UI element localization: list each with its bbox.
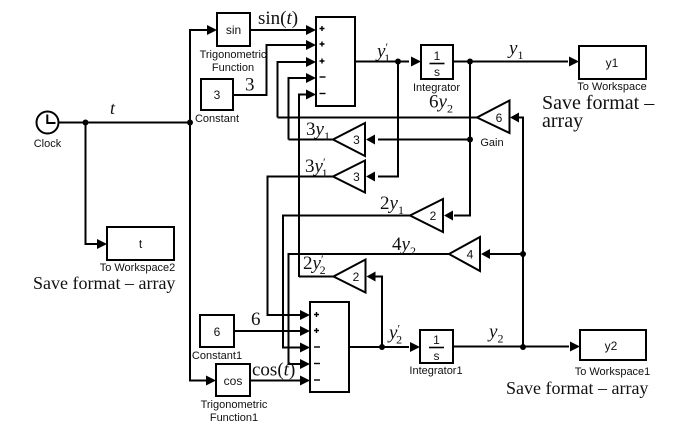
svg-text:2: 2 (430, 209, 437, 223)
svg-text:3: 3 (214, 88, 221, 102)
junction node y2' (379, 344, 385, 350)
svg-text:Integrator1: Integrator1 (409, 365, 462, 377)
arrowhead into Sum1 port3 (306, 57, 316, 67)
svg-text:y′2: y′2 (387, 322, 402, 347)
svg-text:6: 6 (496, 111, 503, 125)
svg-text:cos(t): cos(t) (252, 360, 295, 381)
fraction bar Integrator (430, 63, 445, 65)
arrowhead into Sum2 port1 (300, 310, 310, 320)
junction node on t wire at clock branch (83, 120, 89, 126)
svg-text:y2: y2 (605, 339, 618, 353)
arrowhead into Sum2 port5 (300, 376, 310, 386)
sum block Sum1 (316, 17, 355, 106)
svg-text:To Workspace1: To Workspace1 (575, 366, 651, 378)
arrowhead into Sum2 port3 (300, 343, 310, 353)
sign minus Sum1 port4 (320, 76, 326, 78)
sign plus Sum1 port2 (320, 42, 325, 47)
wire y1 tap down to gain G3a and G2a inputs (454, 62, 470, 216)
junction node y1 at gain G3a tap (467, 137, 473, 143)
svg-text:4: 4 (467, 248, 474, 262)
block To Workspace1 y2 (580, 330, 646, 360)
svg-text:Trigonometric: Trigonometric (200, 49, 267, 61)
wire gain G2b output 2y2' (299, 276, 334, 278)
wire gain G2b input from y2' tap (374, 277, 382, 348)
wire gain G3b output 3y1' down to Sum2 port1 (268, 177, 334, 316)
svg-text:6: 6 (251, 309, 261, 330)
wire gain G4 input from y2 riser (489, 253, 523, 255)
wire gain G6 input from y2 riser (519, 118, 523, 348)
wire Sum1 output y1' to Integrator (355, 61, 409, 63)
wire gain G3a output 3y1 (289, 139, 334, 141)
svg-text:Constant: Constant (195, 113, 239, 125)
svg-text:1: 1 (434, 49, 441, 63)
junction node y1' (395, 59, 401, 65)
gain G3a triangle (333, 123, 365, 156)
svg-text:Function1: Function1 (210, 412, 258, 424)
wire Constant 3 to Sum1 port2 (233, 45, 306, 95)
svg-text:6: 6 (214, 325, 221, 339)
block Integrator (421, 45, 453, 79)
arrowhead into gain G2b (367, 272, 376, 282)
svg-text:2y′2: 2y′2 (303, 252, 326, 277)
arrowhead into sin (207, 25, 217, 35)
wire sin output sin(t) to Sum1 port1 (250, 29, 306, 31)
arrowhead into gain G6 (510, 113, 519, 123)
wire cos output cos(t) to Sum2 port5 (250, 380, 300, 382)
wire y1 tap to gain G3a input (378, 139, 470, 141)
wire gain G4 output 4y2 down to Sum2 port4 (289, 254, 450, 364)
arrowhead into gain G2a (444, 211, 453, 221)
wire gain G2a output 2y1 down to Sum2 port3 (283, 216, 410, 348)
svg-text:cos: cos (224, 374, 243, 388)
block Constant1 value 6 (200, 315, 234, 347)
arrowhead into cos (206, 376, 216, 386)
svg-text:Gain: Gain (480, 137, 503, 149)
wire clock output t (59, 122, 191, 124)
clock block Clock (37, 112, 59, 134)
arrowhead into gain G4 (481, 249, 490, 259)
block Constant value 3 (201, 79, 233, 110)
block cos (Trigonometric Function1) (216, 364, 250, 396)
wire 6y2 into Sum1 port3 (278, 62, 307, 118)
arrowhead into Sum1 port1 (306, 25, 316, 35)
svg-text:Trigonometric: Trigonometric (201, 399, 268, 411)
svg-text:3: 3 (245, 75, 255, 96)
svg-text:2: 2 (353, 270, 360, 284)
wire 2y2' into Sum1 port5 (299, 95, 306, 278)
svg-text:s: s (434, 349, 440, 363)
svg-text:Function: Function (212, 62, 254, 74)
sign plus Sum2 port1 (314, 312, 319, 317)
wire gain G6 output 6y2 (278, 117, 478, 119)
sign minus Sum2 port3 (314, 346, 320, 348)
wire Integrator1 output y2 to To Workspace1 (453, 346, 569, 348)
svg-text:Save format – array: Save format – array (506, 378, 648, 398)
block To Workspace2 t (107, 227, 174, 260)
wire branch up to sin (190, 30, 207, 123)
fraction bar Integrator1 (429, 347, 444, 349)
wire Constant1 6 to Sum2 port2 (234, 330, 300, 332)
arrowhead into Sum2 port4 (300, 359, 310, 369)
arrowhead into To Workspace1 (570, 342, 580, 352)
svg-text:Constant1: Constant1 (192, 350, 242, 362)
junction node y2 on output wire (520, 344, 526, 350)
svg-text:Save format – array: Save format – array (33, 273, 175, 293)
gain G2b triangle (334, 260, 366, 293)
arrowhead into Sum1 port4 (306, 73, 316, 83)
junction node y2 at gain G4 tap (520, 251, 526, 257)
wire branch down to cos (190, 123, 206, 381)
arrowhead into gain G3a (366, 135, 375, 145)
junction node on t wire at sin/cos branch (187, 120, 193, 126)
sign plus Sum2 port2 (314, 328, 319, 333)
svg-text:y′1: y′1 (375, 40, 390, 65)
sign plus Sum1 port1 (320, 26, 325, 31)
sign plus Sum1 port3 (320, 59, 325, 64)
svg-text:1: 1 (433, 333, 440, 347)
wire Sum2 output y2' to Integrator1 (349, 346, 409, 348)
arrowhead into Sum1 port2 (306, 40, 316, 50)
svg-text:3y′1: 3y′1 (305, 155, 328, 180)
arrowhead into To Workspace (569, 57, 579, 67)
arrowhead into Sum1 port5 (306, 90, 316, 100)
sum block Sum2 (310, 302, 349, 392)
wire y1' tap down to gain G3b input (378, 62, 398, 177)
block To Workspace y1 (579, 46, 646, 79)
gain G4 triangle (449, 237, 480, 271)
sign minus Sum2 port4 (314, 363, 320, 365)
arrowhead into Integrator1 (410, 342, 420, 352)
junction node y1 after Integrator (467, 59, 473, 65)
arrowhead into Integrator (411, 57, 421, 67)
gain G2a triangle (410, 199, 443, 232)
svg-text:sin: sin (226, 23, 241, 37)
arrowhead into To Workspace2 (97, 239, 107, 249)
block Integrator1 (420, 330, 453, 363)
wire 3y1 into Sum1 port4 (289, 78, 307, 140)
gain G6 triangle (477, 101, 510, 134)
wire branch down to To Workspace2 (86, 123, 99, 245)
gain G3b triangle (333, 161, 365, 193)
sign minus Sum1 port5 (320, 93, 326, 95)
svg-text:3: 3 (353, 133, 360, 147)
arrowhead into gain G3b (366, 172, 375, 182)
svg-text:3: 3 (353, 170, 360, 184)
wire Integrator output y1 to To Workspace (453, 61, 568, 63)
svg-text:array: array (542, 110, 583, 132)
svg-text:sin(t): sin(t) (258, 8, 298, 29)
svg-text:Clock: Clock (34, 138, 62, 150)
arrowhead into Sum2 port2 (300, 326, 310, 336)
svg-text:y1: y1 (606, 56, 619, 70)
sign minus Sum2 port5 (314, 379, 320, 381)
block sin (Trigonometric Function) (217, 13, 250, 46)
svg-text:s: s (434, 65, 440, 79)
